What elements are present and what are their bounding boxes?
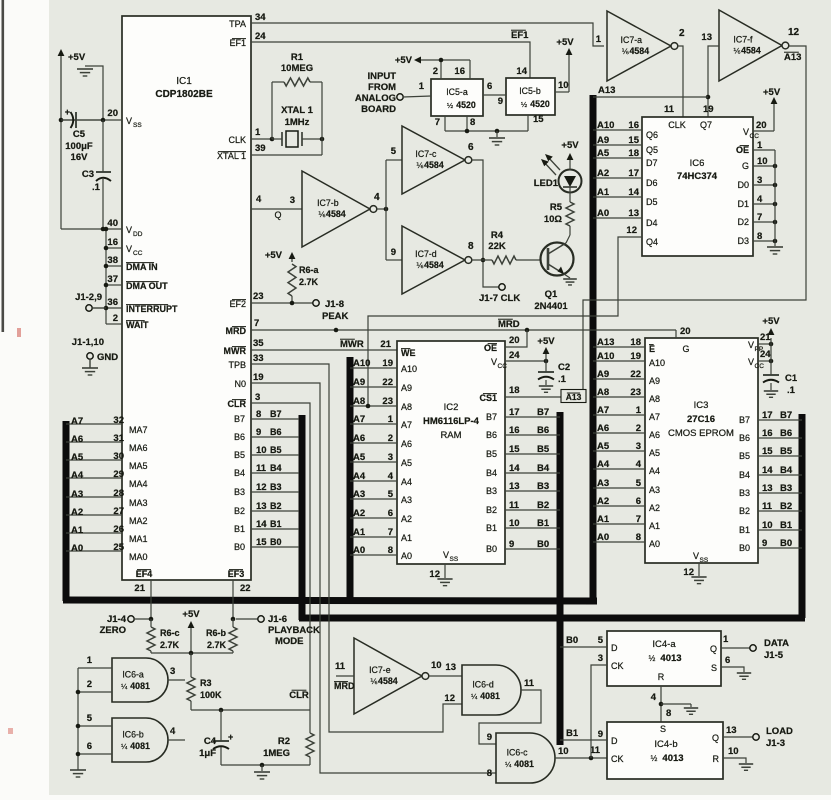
svg-text:11: 11 (524, 678, 535, 689)
svg-text:B0: B0 (234, 542, 245, 552)
svg-text:A8: A8 (649, 394, 660, 404)
IC1 pin 33 TPB / wire TPB down to IC6-d (251, 364, 462, 732)
svg-text:A5: A5 (597, 148, 610, 159)
svg-text:B3: B3 (537, 481, 549, 492)
svg-text:6: 6 (636, 496, 641, 507)
svg-text:V: V (693, 551, 699, 561)
svg-text:J1-2,9: J1-2,9 (75, 292, 102, 303)
svg-text:IC6-d: IC6-d (472, 680, 494, 690)
svg-text:V: V (126, 116, 132, 126)
IC2 pin 3 A5 (350, 461, 397, 463)
svg-text:B5: B5 (739, 451, 750, 461)
svg-text:C4: C4 (204, 736, 217, 747)
svg-text:9: 9 (509, 539, 514, 550)
svg-text:V: V (748, 340, 754, 350)
svg-text:20: 20 (509, 335, 520, 346)
svg-text:A3: A3 (71, 489, 83, 500)
capacitor C3 0.1 (102, 120, 104, 172)
svg-text:15: 15 (628, 135, 639, 146)
svg-text:SS: SS (133, 122, 142, 129)
+5V at IC3 VPP/VCC (770, 338, 772, 344)
svg-text:4013: 4013 (662, 753, 683, 764)
svg-text:B6: B6 (780, 428, 792, 439)
svg-text:+: + (65, 107, 70, 117)
wire: IC7-a output to IC6 CLK pin 11 (678, 46, 683, 117)
svg-text:A3: A3 (401, 495, 412, 505)
svg-text:21: 21 (134, 583, 145, 594)
svg-text:22: 22 (630, 369, 641, 380)
svg-text:13: 13 (256, 501, 267, 512)
svg-text:A1: A1 (353, 527, 366, 538)
svg-text:6: 6 (388, 508, 393, 519)
svg-text:N0: N0 (234, 379, 246, 389)
IC1 pin 34 TPA / wire TPA to IC7-a (251, 23, 604, 46)
svg-text:4520: 4520 (530, 99, 550, 109)
svg-text:8: 8 (470, 117, 475, 128)
svg-text:Q1: Q1 (545, 289, 558, 300)
svg-text:V: V (126, 225, 132, 235)
svg-text:10MEG: 10MEG (281, 63, 313, 74)
IC5-b pin 10 to +5V (555, 91, 569, 93)
svg-text:B4: B4 (780, 465, 793, 476)
svg-text:24: 24 (509, 350, 520, 361)
bus: main bottom horizontal (lower run) (299, 615, 805, 622)
IC6 pin 4 D1 (753, 203, 775, 205)
svg-text:A2: A2 (649, 503, 660, 513)
svg-text:B2: B2 (486, 505, 497, 515)
svg-text:10: 10 (558, 746, 569, 757)
wire: MRD into IC7-e pin 11 (336, 675, 354, 677)
svg-text:A6: A6 (353, 433, 365, 444)
svg-text:IC5-a: IC5-a (446, 87, 468, 97)
IC1 pin 10 BUS5 / wire B5 (251, 454, 299, 456)
svg-text:V: V (743, 127, 749, 137)
svg-text:A10: A10 (401, 364, 417, 374)
svg-text:A9: A9 (353, 377, 365, 388)
svg-text:+5V: +5V (537, 336, 555, 347)
IC6 pin 7 D2 (753, 221, 775, 223)
svg-text:4081: 4081 (514, 759, 534, 769)
svg-text:4081: 4081 (130, 681, 150, 691)
IC1 pin 29 MA4 / wire A4 to MA bus (66, 477, 122, 479)
IC2 pin 10 B1 / wire to B bus (505, 527, 560, 529)
svg-text:A6: A6 (597, 423, 609, 434)
svg-text:HM6116LP-4: HM6116LP-4 (423, 416, 480, 427)
IC6 pin 20 VCC to +5V (753, 130, 774, 132)
svg-text:J1-6: J1-6 (268, 614, 287, 625)
IC1 pin 28 MA3 / wire A3 to MA bus (66, 496, 122, 498)
IC3 pin 13 B3 / wire to right B bus (758, 492, 802, 494)
svg-text:⅙: ⅙ (370, 677, 378, 686)
op IC7-f 4584 inverter (719, 10, 782, 81)
IC2 pin 14 B4 / wire to B bus (505, 472, 560, 474)
svg-text:4584: 4584 (326, 209, 346, 219)
svg-text:D: D (611, 643, 618, 653)
svg-text:35: 35 (253, 338, 264, 349)
svg-text:B5: B5 (780, 446, 793, 457)
svg-text:CK: CK (611, 754, 624, 764)
IC6-a output pin 3 (168, 679, 185, 681)
svg-text:INTERRUPT: INTERRUPT (126, 304, 178, 314)
svg-text:B7: B7 (234, 414, 245, 424)
svg-text:B7: B7 (486, 412, 497, 422)
svg-text:25: 25 (113, 542, 124, 553)
svg-text:16: 16 (107, 237, 118, 248)
svg-text:16V: 16V (71, 152, 89, 163)
IC1 pin 25 MA0 / wire A0 to MA bus (66, 550, 122, 552)
svg-text:3: 3 (757, 175, 762, 186)
svg-text:MA4: MA4 (129, 479, 148, 489)
transistor Q1 2N4401 (541, 243, 574, 276)
IC3 pin 18 A13 (593, 346, 645, 348)
svg-text:27: 27 (113, 506, 124, 517)
svg-text:36: 36 (107, 297, 118, 308)
svg-text:RAM: RAM (440, 430, 461, 441)
svg-text:WE: WE (401, 348, 416, 358)
svg-text:17: 17 (762, 410, 773, 421)
svg-text:A1: A1 (597, 514, 610, 525)
IC3 pin 21 VPP (758, 343, 771, 345)
svg-text:100K: 100K (200, 690, 222, 700)
IC2 pin 16 B6 / wire to B bus (505, 434, 560, 436)
svg-text:V: V (126, 244, 132, 254)
svg-text:CLR: CLR (289, 690, 309, 701)
svg-text:½: ½ (651, 754, 658, 763)
svg-text:D2: D2 (737, 217, 749, 227)
IC2 pin 5 A3 (350, 498, 397, 500)
svg-text:29: 29 (113, 469, 124, 480)
ground at VSS pin 20 (85, 66, 103, 120)
svg-text:A9: A9 (401, 383, 412, 393)
svg-text:.1: .1 (787, 385, 796, 396)
svg-text:CMOS EPROM: CMOS EPROM (668, 428, 734, 439)
svg-text:A3: A3 (649, 485, 660, 495)
gate IC6-a 4081 (112, 658, 168, 702)
svg-text:4081: 4081 (130, 741, 150, 751)
op IC7-b 4584 inverter (302, 171, 370, 247)
svg-text:A7: A7 (71, 416, 83, 427)
svg-text:CC: CC (750, 133, 760, 140)
svg-text:A1: A1 (401, 533, 412, 543)
svg-text:D: D (611, 736, 618, 746)
svg-text:XTAL 1: XTAL 1 (217, 151, 246, 161)
IC2 pin 4 A4 (350, 480, 397, 482)
svg-text:A7: A7 (597, 405, 609, 416)
svg-text:11: 11 (256, 463, 267, 474)
svg-text:23: 23 (253, 291, 264, 302)
svg-text:⅙: ⅙ (416, 261, 424, 270)
IC2 HM6116LP-4 RAM (397, 341, 505, 564)
svg-text:2: 2 (679, 28, 685, 39)
capacitor C5 100uF 16V (61, 119, 103, 121)
svg-text:10: 10 (431, 660, 442, 671)
svg-text:14: 14 (509, 463, 520, 474)
svg-text:A13: A13 (598, 85, 615, 96)
svg-text:B0: B0 (739, 543, 750, 553)
IC6-b output pin 4 (168, 739, 185, 741)
IC5 ground pins 7,8,15 (444, 116, 446, 131)
svg-text:CC: CC (755, 363, 765, 370)
svg-text:8: 8 (487, 768, 492, 779)
svg-text:4: 4 (256, 194, 262, 205)
svg-text:A10: A10 (649, 358, 665, 368)
svg-text:3: 3 (388, 452, 393, 463)
svg-text:D4: D4 (646, 218, 658, 228)
IC3 pin 3 A5 (593, 450, 645, 452)
IC6 pin 14 D5 / wire A1 (593, 196, 642, 198)
svg-text:22: 22 (240, 583, 251, 594)
svg-text:12: 12 (626, 225, 637, 236)
svg-text:10: 10 (728, 746, 739, 757)
svg-text:B5: B5 (234, 450, 245, 460)
svg-text:IC1: IC1 (176, 76, 192, 87)
svg-text:32: 32 (113, 415, 124, 426)
svg-text:IC7-b: IC7-b (317, 198, 339, 208)
svg-text:B2: B2 (234, 506, 245, 516)
svg-text:D0: D0 (737, 180, 749, 190)
svg-text:CLR: CLR (228, 399, 247, 409)
svg-text:A9: A9 (597, 135, 609, 146)
IC6 pin 13 D4 / wire A0 (593, 217, 642, 219)
svg-text:10Ω: 10Ω (544, 214, 563, 225)
IC1 pin 19 N0 / wire N0 down to IC6-c (251, 383, 496, 773)
wire: J1-4 to EF4 pull-up node (134, 618, 151, 620)
svg-text:ANALOG: ANALOG (355, 93, 396, 104)
svg-text:J1-4: J1-4 (107, 614, 127, 625)
svg-text:A13: A13 (784, 52, 801, 63)
svg-text:4584: 4584 (630, 46, 650, 56)
svg-text:9: 9 (256, 427, 261, 438)
IC3 pin 5 A3 (593, 487, 645, 489)
svg-text:¼: ¼ (121, 682, 128, 691)
IC3 pin 4 A4 (593, 468, 645, 470)
IC1 pin 14 BUS1 / wire B1 (251, 528, 299, 530)
svg-text:D5: D5 (646, 197, 658, 207)
svg-text:A2: A2 (597, 496, 609, 507)
op IC7-a 4584 inverter (607, 11, 671, 81)
svg-text:2N4401: 2N4401 (534, 301, 568, 312)
svg-text:IC2: IC2 (444, 402, 459, 413)
svg-text:12: 12 (256, 482, 267, 493)
svg-text:DD: DD (133, 231, 143, 238)
IC6 pin 18 D7 / wire A5 (593, 157, 642, 159)
svg-text:Q5: Q5 (646, 145, 658, 155)
svg-text:8: 8 (468, 241, 474, 252)
svg-text:3: 3 (598, 653, 603, 664)
svg-text:A7: A7 (401, 420, 412, 430)
IC3 pin 7 A1 (593, 523, 645, 525)
IC3 pin 10 B1 / wire to right B bus (758, 529, 802, 531)
svg-text:B7: B7 (537, 407, 549, 418)
svg-text:6: 6 (725, 655, 730, 666)
wire: IC7-e output pin 10 to IC6-d pin 13 (429, 675, 462, 677)
IC6-a inputs pins 1,2 (78, 667, 112, 669)
svg-text:9: 9 (487, 732, 492, 743)
LED1 (559, 170, 582, 193)
svg-text:MA3: MA3 (129, 498, 148, 508)
svg-text:½: ½ (447, 101, 454, 110)
svg-text:13: 13 (701, 32, 712, 43)
svg-text:4584: 4584 (741, 46, 761, 56)
svg-text:2: 2 (433, 66, 438, 77)
svg-text:.1: .1 (558, 374, 567, 385)
IC5-b 4520 counter (506, 78, 555, 115)
IC6 pin 16 Q6 / wire A10 (593, 129, 642, 131)
svg-text:A4: A4 (597, 459, 610, 470)
IC2 pin 13 B3 / wire to B bus (505, 490, 560, 492)
IC1 pin 24 EF1 / wire EF1 to IC5-b pin 14 (251, 42, 530, 79)
svg-text:2.7K: 2.7K (299, 277, 319, 287)
svg-text:B3: B3 (780, 483, 792, 494)
svg-text:B6: B6 (234, 432, 245, 442)
svg-text:⅙: ⅙ (622, 47, 630, 56)
IC3 pin 15 B5 / wire to right B bus (758, 455, 802, 457)
svg-text:B4: B4 (537, 463, 550, 474)
svg-text:5: 5 (388, 489, 394, 500)
svg-text:A2: A2 (71, 507, 83, 518)
svg-text:EF3: EF3 (228, 569, 245, 579)
svg-text:A8: A8 (401, 402, 412, 412)
svg-text:G: G (742, 161, 749, 171)
svg-text:9: 9 (391, 247, 396, 258)
svg-text:B1: B1 (566, 728, 579, 739)
svg-text:16: 16 (628, 120, 639, 131)
svg-text:7: 7 (435, 117, 440, 128)
svg-text:15: 15 (533, 114, 544, 125)
svg-text:A5: A5 (71, 452, 84, 463)
svg-text:11: 11 (509, 500, 520, 511)
svg-text:C3: C3 (82, 169, 94, 180)
svg-text:C2: C2 (558, 362, 570, 373)
svg-text:MA0: MA0 (129, 552, 148, 562)
svg-text:R6-a: R6-a (299, 265, 320, 275)
svg-text:S: S (711, 663, 717, 673)
scan artifact: dark line at left edge (2, 0, 5, 332)
svg-text:7: 7 (388, 527, 393, 538)
gate IC6-b 4081 (112, 718, 168, 762)
svg-text:IC4-a: IC4-a (652, 639, 676, 650)
svg-text:A5: A5 (649, 448, 660, 458)
svg-text:1μF: 1μF (199, 748, 216, 759)
IC4-a R pin 4 to ground and IC4-b S pin 8 (660, 686, 662, 722)
svg-text:38: 38 (107, 255, 118, 266)
svg-text:DMA IN: DMA IN (126, 262, 158, 272)
resistor R6-b 2.7K (231, 617, 236, 622)
svg-text:C1: C1 (785, 373, 798, 384)
svg-text:R: R (658, 672, 665, 682)
svg-text:A4: A4 (649, 466, 660, 476)
svg-text:4: 4 (651, 692, 657, 703)
svg-text:4584: 4584 (424, 260, 444, 270)
IC2 pin 9 B0 / wire to B bus (505, 548, 560, 550)
ground at Q1 emitter (564, 274, 570, 278)
svg-text:1: 1 (255, 127, 261, 138)
IC2 pin 11 B2 / wire to B bus (505, 509, 560, 511)
svg-text:XTAL 1: XTAL 1 (281, 105, 314, 116)
svg-text:12: 12 (444, 693, 455, 704)
svg-text:19: 19 (630, 351, 641, 362)
svg-text:13: 13 (762, 483, 773, 494)
svg-text:B2: B2 (739, 506, 750, 516)
wire: IC7-b output node (377, 208, 386, 210)
IC3 pin 9 B0 / wire to right B bus (758, 547, 802, 549)
wire: Q7 to IC7-f input (708, 46, 719, 117)
IC6 pin 15 Q5 / wire A9 (593, 144, 642, 146)
svg-text:J1-1,10: J1-1,10 (72, 337, 104, 348)
svg-text:20: 20 (107, 108, 118, 119)
svg-text:13: 13 (726, 725, 737, 736)
svg-text:B1: B1 (270, 519, 282, 529)
IC1 pin 27 MA2 / wire A2 to MA bus (66, 514, 122, 516)
svg-text:16: 16 (454, 66, 465, 77)
svg-text:6: 6 (468, 142, 474, 153)
svg-text:TPB: TPB (228, 360, 246, 370)
IC1 pin 38 DMA-IN (106, 265, 122, 267)
svg-text:IC7-c: IC7-c (415, 149, 437, 159)
IC1 pin 3 CLR / wire CLR down to R2 (251, 403, 310, 710)
svg-text:EF1: EF1 (511, 30, 529, 41)
svg-text:B0: B0 (537, 539, 549, 550)
IC6 pin 3 D0 (753, 184, 775, 186)
IC1 pin 8 BUS7 / wire B7 (251, 418, 299, 420)
IC4-a 4013 flip-flop (607, 631, 721, 686)
svg-text:13: 13 (628, 208, 639, 219)
svg-text:A2: A2 (597, 168, 609, 179)
svg-text:A5: A5 (597, 441, 610, 452)
svg-text:4081: 4081 (480, 691, 500, 701)
svg-text:A2: A2 (401, 514, 412, 524)
svg-text:16: 16 (762, 428, 773, 439)
svg-text:S: S (660, 724, 666, 734)
svg-text:1: 1 (419, 81, 425, 92)
svg-text:IC5-b: IC5-b (519, 86, 541, 96)
IC1 pin 40 VDD (61, 228, 122, 230)
svg-text:J1-8: J1-8 (325, 299, 344, 310)
ground for IC6 input pins (774, 241, 776, 246)
svg-text:8: 8 (666, 708, 671, 719)
svg-text:8: 8 (388, 545, 393, 556)
IC1 pin 12 BUS3 / wire B3 (251, 491, 299, 493)
IC1 pin 39 XTAL1 (251, 154, 322, 156)
+5V to LED1 anode (569, 160, 571, 170)
svg-text:IC4-b: IC4-b (654, 739, 677, 750)
svg-text:5: 5 (391, 146, 397, 157)
svg-text:B6: B6 (270, 427, 282, 437)
svg-text:1: 1 (87, 655, 93, 666)
svg-text:LOAD: LOAD (766, 726, 793, 737)
svg-text:R3: R3 (200, 678, 212, 688)
resistor R4 22K (492, 256, 516, 264)
svg-text:B4: B4 (270, 463, 282, 473)
IC2 pin 8 A0 (350, 554, 397, 556)
svg-text:9: 9 (598, 729, 603, 740)
svg-text:+5V: +5V (68, 52, 86, 63)
svg-text:B1: B1 (780, 520, 793, 531)
svg-text:A6: A6 (649, 430, 660, 440)
svg-text:R5: R5 (550, 202, 563, 213)
svg-text:B4: B4 (739, 470, 750, 480)
svg-text:A7: A7 (649, 412, 660, 422)
svg-text:R6-c: R6-c (160, 628, 180, 638)
svg-text:A1: A1 (649, 521, 660, 531)
svg-text:+5V: +5V (762, 316, 780, 327)
wire: unused gate inputs to ground (77, 668, 79, 770)
svg-text:11: 11 (762, 501, 773, 512)
svg-text:EF4: EF4 (136, 569, 153, 579)
svg-text:A0: A0 (353, 545, 365, 556)
svg-text:10: 10 (762, 520, 773, 531)
svg-text:13: 13 (509, 481, 520, 492)
